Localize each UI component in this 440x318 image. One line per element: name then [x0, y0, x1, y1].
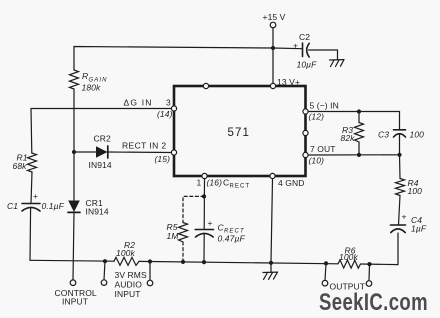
svg-text:SeekIC.com: SeekIC.com — [319, 289, 428, 316]
wire dG IN 3 horizontal — [31, 108, 171, 110]
svg-text:C1: C1 — [7, 201, 18, 211]
node audio input right — [148, 259, 152, 263]
wire stub to audio terminal 1 — [104, 261, 105, 280]
wire common bottom rail right segment to C4 branch — [361, 233, 399, 265]
pin right-middle unlabeled — [303, 130, 308, 135]
capacitor CRECT 0.47uF — [195, 218, 245, 244]
node R5 dashed tap on CRECT leg — [202, 194, 206, 198]
svg-text:C3: C3 — [378, 130, 389, 140]
svg-text:IN914: IN914 — [89, 160, 112, 170]
wire pin 5 to C3 branch — [308, 112, 399, 130]
diode CR1 1N914 — [68, 152, 109, 280]
svg-text:100: 100 — [410, 130, 425, 140]
resistor R4 100 — [396, 155, 423, 225]
svg-text:68k: 68k — [13, 161, 28, 171]
svg-text:100k: 100k — [339, 252, 358, 262]
wire pin 4 GND down to rail — [271, 179, 273, 263]
wire C1 bottom to common rail — [29, 208, 32, 260]
node audio input left — [103, 259, 107, 263]
node R5 bottom on rail — [181, 260, 185, 264]
wire stub to audio terminal 2 — [149, 262, 151, 281]
wire stub to output terminal 2 — [368, 264, 371, 281]
diode CR2 1N914 — [74, 133, 171, 170]
svg-text:0.47µF: 0.47µF — [218, 234, 246, 244]
svg-text:10µF: 10µF — [297, 60, 318, 70]
pin 13 V+ circle — [270, 77, 300, 89]
node GND on rail — [269, 261, 273, 265]
terminal audio input 1 — [101, 280, 107, 286]
svg-text:+: + — [33, 191, 38, 201]
resistor R3 82k — [341, 112, 364, 155]
svg-text:+: + — [293, 41, 298, 51]
wire dashed R5 bottom to rail — [182, 242, 184, 262]
node R3 top — [357, 109, 361, 113]
svg-text:RECT: RECT — [230, 184, 251, 190]
IC U1 571 compander — [174, 86, 306, 176]
wire dashed to R5 top — [183, 196, 204, 222]
svg-text:(15): (15) — [155, 154, 171, 164]
svg-text:RECT IN 2: RECT IN 2 — [122, 140, 167, 150]
svg-text:+: + — [208, 218, 213, 228]
capacitor C4 1uF — [391, 212, 427, 234]
pin 7 OUT — [303, 144, 336, 165]
svg-text:180k: 180k — [82, 83, 101, 93]
svg-text:C: C — [223, 178, 229, 188]
terminal control input — [55, 280, 97, 307]
svg-text:1µF: 1µF — [411, 224, 427, 234]
capacitor C3 100 — [378, 130, 424, 155]
capacitor C1 0.1uF — [7, 191, 65, 211]
capacitor C2 10uF — [293, 32, 317, 70]
terminal audio input 2 — [115, 270, 153, 299]
resistor R1 68k — [13, 152, 37, 172]
wire pin 1 down to CRECT — [203, 179, 205, 230]
wire pin 7 to R4 branch — [308, 154, 399, 156]
wire node down to pin 13 V+ — [272, 48, 274, 86]
terminal +15V supply — [263, 12, 286, 28]
svg-text:3: 3 — [166, 98, 171, 108]
wire stub to output terminal 1 — [325, 263, 326, 280]
wire R1 to C1 — [31, 172, 32, 204]
node output right — [367, 262, 371, 266]
pin 3 dG IN — [124, 98, 177, 120]
node C3 bottom / R4 top — [397, 153, 401, 157]
node CRECT bottom on rail — [202, 260, 206, 264]
terminal output 1 — [322, 280, 328, 286]
wire common bottom rail left segment — [30, 259, 114, 262]
pin top unlabeled — [203, 83, 208, 88]
resistor R2 100k — [114, 240, 139, 265]
svg-text:5 (−) IN: 5 (−) IN — [310, 101, 339, 111]
svg-text:(16): (16) — [207, 178, 223, 188]
pin 5 (-) IN — [303, 101, 339, 122]
pin 4 GND — [270, 173, 305, 187]
svg-text:1: 1 — [197, 178, 202, 188]
svg-text:+15 V: +15 V — [263, 12, 286, 22]
wire left vertical from dG wire to R1 — [30, 109, 33, 154]
svg-text:IN914: IN914 — [86, 207, 109, 217]
svg-text:INPUT: INPUT — [115, 289, 141, 299]
wire top-left from RGAIN top to +15V node — [74, 47, 273, 71]
svg-text:100k: 100k — [116, 248, 135, 258]
wire common bottom rail middle segment — [139, 261, 338, 263]
node R3 bottom — [357, 153, 361, 157]
resistor R6 100k — [338, 246, 361, 269]
svg-text:0.1µF: 0.1µF — [42, 201, 65, 211]
svg-text:571: 571 — [228, 127, 251, 139]
svg-text:1M: 1M — [167, 231, 180, 241]
resistor RGAIN 180k — [70, 70, 108, 93]
svg-text:100: 100 — [408, 186, 423, 196]
node junction at +15V rail — [271, 46, 275, 50]
pin 1 (16) CRECT — [197, 173, 251, 189]
resistor R5 1M — [167, 222, 188, 242]
svg-text:4 GND: 4 GND — [278, 178, 304, 188]
node CR2 anode junction — [72, 150, 76, 154]
svg-text:(14): (14) — [157, 109, 173, 119]
wire RGAIN bottom through dG wire to CR2 node — [73, 89, 75, 152]
wire +15V terminal down to node — [272, 28, 274, 48]
svg-text:7 OUT: 7 OUT — [310, 144, 336, 154]
pin 2 RECT IN — [122, 140, 177, 164]
svg-text:+: + — [402, 212, 407, 222]
ground symbol at C2 — [330, 60, 345, 67]
svg-text:C2: C2 — [299, 32, 310, 42]
node output left — [324, 261, 328, 265]
svg-text:(12): (12) — [309, 111, 325, 121]
wire C2 to ground — [309, 50, 338, 60]
wire GND stub down — [270, 263, 272, 272]
wire CRECT bottom to rail — [203, 234, 205, 262]
svg-text:CR2: CR2 — [94, 133, 111, 143]
ground symbol main — [263, 272, 278, 279]
svg-text:(10): (10) — [309, 156, 325, 166]
svg-text:82k: 82k — [341, 133, 356, 143]
svg-text:R: R — [82, 71, 88, 81]
terminal output 2 — [330, 281, 372, 292]
svg-text:ΔG IN: ΔG IN — [124, 98, 153, 108]
svg-text:13 V+: 13 V+ — [277, 77, 300, 87]
svg-text:INPUT: INPUT — [62, 297, 88, 307]
wire +15V node to C2 left plate — [273, 47, 302, 50]
